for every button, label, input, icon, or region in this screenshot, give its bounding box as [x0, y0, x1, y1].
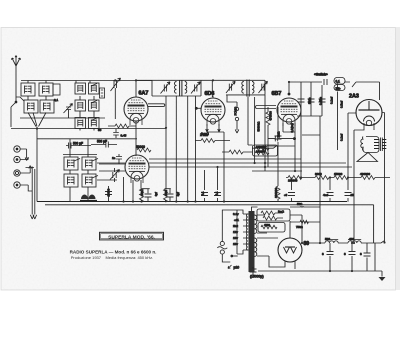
svg-text:FONO: FONO [234, 106, 238, 115]
svg-text:750Ω: 750Ω [296, 225, 303, 229]
svg-text:6μf: 6μf [154, 192, 158, 196]
svg-text:3.3v: 3.3v [233, 212, 239, 216]
svg-text:4000: 4000 [264, 223, 270, 227]
svg-text:p10: p10 [234, 266, 240, 270]
svg-text:402: 402 [349, 237, 354, 241]
svg-text:500p: 500p [308, 97, 312, 104]
svg-text:0,1: 0,1 [215, 191, 219, 195]
svg-text:«Switch»: «Switch» [314, 73, 328, 77]
svg-text:4000: 4000 [164, 190, 168, 197]
svg-text:2MΩ: 2MΩ [277, 132, 281, 138]
svg-text:16v: 16v [233, 236, 238, 240]
svg-text:SUPERLA MOD. ’66.: SUPERLA MOD. ’66. [108, 235, 155, 241]
svg-text:15000: 15000 [334, 172, 343, 176]
svg-text:50000: 50000 [136, 145, 145, 149]
svg-text:0,1: 0,1 [201, 191, 205, 195]
svg-text:100000: 100000 [256, 150, 265, 154]
svg-text:50Ω: 50Ω [297, 202, 302, 206]
svg-text:50000Ω: 50000Ω [257, 122, 261, 132]
svg-text:2 MΩ: 2 MΩ [200, 133, 208, 137]
svg-text:1n: 1n [112, 156, 116, 160]
svg-text:0,1: 0,1 [54, 98, 59, 102]
svg-text:50: 50 [98, 128, 102, 132]
svg-text:4mf: 4mf [323, 193, 328, 197]
svg-text:RADIO SUPERLA — Mod. n 66 e 66: RADIO SUPERLA — Mod. n 66 e 6600 n. [70, 250, 157, 255]
svg-text:400Ω: 400Ω [140, 189, 144, 196]
svg-text:8000: 8000 [315, 172, 322, 176]
svg-text:10000: 10000 [107, 188, 111, 196]
svg-text:400000: 400000 [360, 172, 370, 176]
svg-text:2A3: 2A3 [349, 94, 359, 100]
svg-text:12v: 12v [233, 230, 238, 234]
svg-text:6A7: 6A7 [139, 91, 149, 97]
svg-text:+8: +8 [284, 193, 288, 197]
svg-text:0.5mf: 0.5mf [340, 101, 344, 108]
svg-text:2h2: 2h2 [233, 224, 238, 228]
svg-text:6B7: 6B7 [272, 91, 282, 97]
svg-text:0,1(2m): 0,1(2m) [290, 123, 294, 132]
svg-text:470000: 470000 [269, 111, 273, 121]
svg-text:18v: 18v [233, 242, 238, 246]
svg-text:0.45: 0.45 [121, 134, 127, 138]
svg-text:Produzione 1937 Media frequ: Produzione 1937 Media frequenza: 450 kHz… [71, 255, 154, 260]
svg-text:100000: 100000 [274, 188, 278, 198]
svg-text:(15000p): (15000p) [250, 275, 264, 279]
svg-text:25: 25 [351, 193, 355, 197]
svg-text:8μf: 8μf [176, 192, 180, 196]
svg-text:8mΩ: 8mΩ [278, 210, 284, 214]
svg-text:0.1mf: 0.1mf [330, 97, 334, 104]
svg-text:0.1mf: 0.1mf [340, 134, 344, 141]
svg-text:500 pF: 500 pF [73, 142, 83, 146]
svg-text:502: 502 [325, 237, 330, 241]
svg-text:100000: 100000 [288, 179, 298, 183]
svg-text:0,1: 0,1 [336, 80, 341, 84]
svg-text:80: 80 [304, 241, 310, 247]
svg-text:500 pF: 500 pF [97, 140, 107, 144]
svg-text:0.45m: 0.45m [319, 96, 323, 105]
